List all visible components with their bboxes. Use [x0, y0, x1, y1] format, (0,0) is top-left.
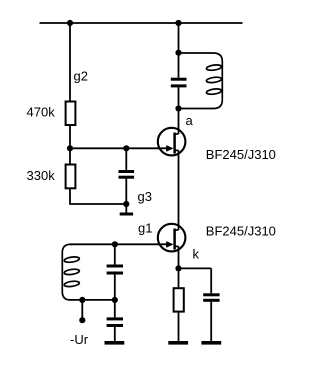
ground terminal bar below C2 — [105, 341, 125, 345]
resistor Rk (cathode resistor, bottom right) — [174, 288, 184, 311]
junction node a — [175, 105, 181, 111]
wire tank bottom node a to upper JFET drain — [178, 109, 180, 135]
svg-text:g2: g2 — [74, 69, 88, 84]
wire node k row to cap3 — [179, 267, 212, 269]
ground terminal bar below C3 — [201, 341, 221, 345]
wire lower gate row from left tank to gate — [70, 243, 168, 245]
svg-text:-Ur: -Ur — [70, 332, 89, 347]
wire tank cap top lead — [178, 53, 180, 78]
wire left tank cap1 bottom lead — [114, 272, 116, 300]
junction node g3 — [123, 201, 129, 207]
svg-text:k: k — [193, 247, 200, 262]
capacitor C3 bottom right — [203, 293, 219, 302]
wire top supply rail — [40, 22, 243, 24]
junction rail-left — [67, 20, 73, 26]
terminal -Ur — [79, 317, 85, 323]
wire tank cap bottom lead — [178, 87, 180, 108]
capacitor C2 above -Ur terminal bar — [107, 317, 123, 327]
wire cap3 bottom lead — [210, 299, 212, 342]
capacitor left tank C1 — [107, 265, 123, 275]
wire row1 to 330k top — [69, 148, 71, 164]
wire left vertical from rail to 470k — [69, 23, 71, 102]
junction node k — [175, 265, 181, 271]
junction -Ur row — [79, 297, 85, 303]
transistor lower JFET BF245/J310 — [158, 224, 186, 252]
junction divider row left — [67, 145, 73, 151]
svg-text:g1: g1 — [138, 221, 152, 236]
svg-text:BF245/J310: BF245/J310 — [206, 223, 276, 238]
wire resistor Rk bottom lead — [178, 312, 180, 342]
wire node k to resistor Rk — [178, 268, 180, 288]
wire cap3 top lead — [210, 268, 212, 293]
wire -Ur stub — [81, 300, 83, 319]
resistor 330k — [66, 165, 76, 189]
wire 470k to row1 — [69, 125, 71, 149]
wire 330k bottom to g3 node — [70, 189, 126, 204]
junction bottom row cap2 — [112, 297, 118, 303]
wire mid cap top lead — [125, 148, 127, 170]
svg-text:BF245/J310: BF245/J310 — [206, 147, 276, 162]
resistor 470k — [66, 102, 76, 126]
ground terminal bar at g3 stub — [120, 213, 133, 216]
svg-text:g3: g3 — [138, 189, 152, 204]
wire left tank cap1 top lead — [114, 244, 116, 264]
inductor left tank — [62, 244, 79, 300]
inductor tank top right — [179, 53, 223, 109]
wire upper JFET source to lower JFET drain — [178, 150, 180, 230]
transistor upper JFET BF245/J310 — [158, 128, 186, 156]
svg-text:470k: 470k — [27, 105, 56, 120]
junction rail-right — [175, 20, 181, 26]
capacitor g3 mid — [119, 170, 135, 179]
svg-text:a: a — [186, 113, 194, 128]
wire cap2 bottom lead — [114, 325, 116, 342]
wire cap2 top lead — [114, 300, 116, 318]
wire g3 stub down to terminal — [125, 204, 127, 213]
wire left tank bottom row — [70, 299, 115, 301]
junction divider row cap — [123, 145, 129, 151]
svg-text:330k: 330k — [27, 168, 56, 183]
wire lower JFET source to node k — [178, 246, 180, 268]
capacitor tank top right — [171, 78, 187, 88]
wire row1 g2-divider node to upper gate — [70, 147, 167, 149]
wire right vertical rail to tank top — [178, 23, 180, 53]
wire mid cap bottom lead — [125, 179, 127, 204]
junction g1 row — [112, 241, 118, 247]
junction tank top — [175, 50, 181, 56]
ground terminal bar below Rk — [168, 341, 188, 345]
